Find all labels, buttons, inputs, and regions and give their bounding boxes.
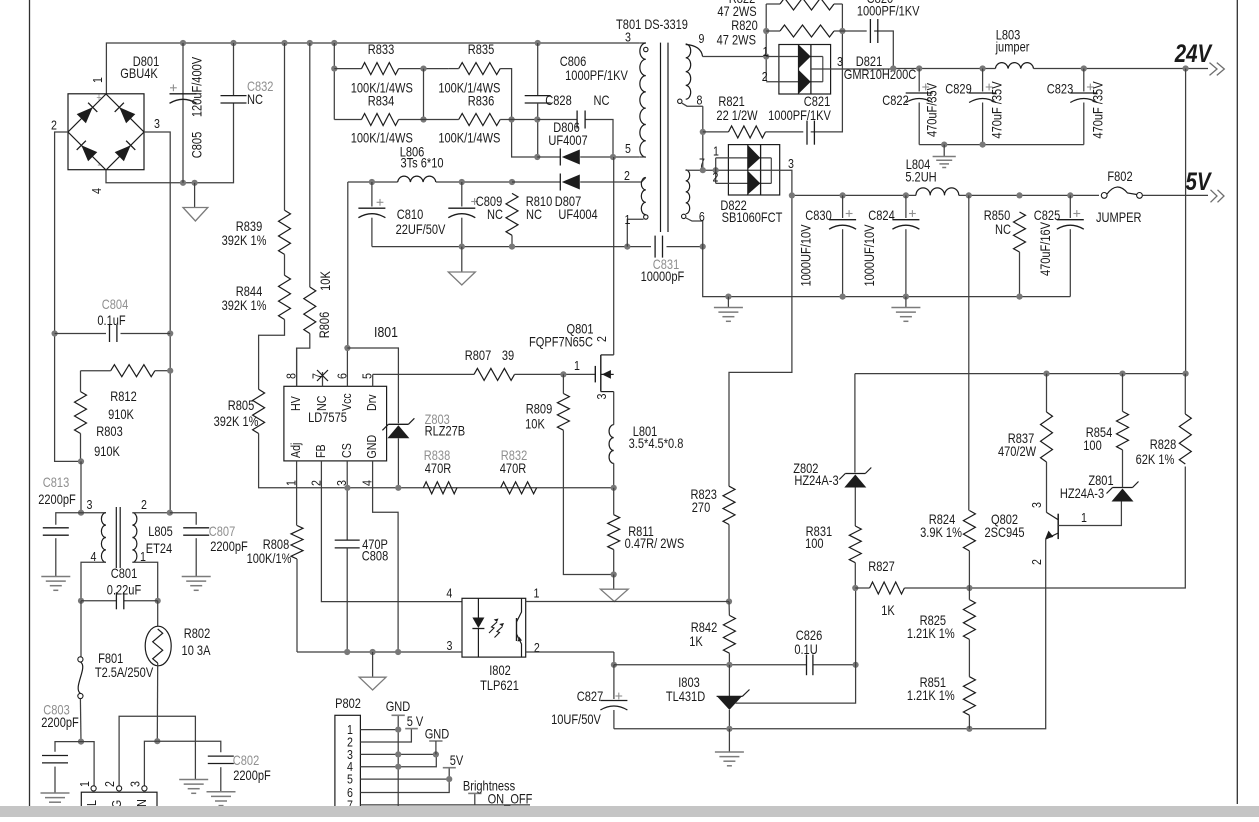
svg-text:470uF /35V: 470uF /35V — [1091, 81, 1106, 139]
svg-text:0.1U: 0.1U — [794, 642, 817, 657]
svg-text:R834: R834 — [368, 93, 395, 108]
svg-text:47 2WS: 47 2WS — [717, 32, 756, 47]
svg-text:470uF/35V: 470uF/35V — [924, 82, 939, 137]
svg-text:62K 1%: 62K 1% — [1136, 452, 1175, 467]
svg-text:C801: C801 — [111, 566, 138, 581]
svg-text:ET24: ET24 — [146, 541, 173, 556]
svg-text:10000pF: 10000pF — [641, 269, 685, 284]
svg-text:392K 1%: 392K 1% — [222, 298, 267, 313]
svg-text:SB1060FCT: SB1060FCT — [722, 210, 783, 225]
svg-text:3: 3 — [154, 116, 160, 131]
svg-text:2: 2 — [51, 117, 57, 132]
svg-text:100K/1%: 100K/1% — [247, 551, 292, 566]
svg-text:HZ24A-3: HZ24A-3 — [1060, 486, 1104, 501]
svg-text:C825: C825 — [1034, 208, 1061, 223]
svg-text:1: 1 — [763, 44, 769, 59]
svg-text:UF4007: UF4007 — [548, 133, 587, 148]
svg-text:T2.5A/250V: T2.5A/250V — [95, 665, 154, 680]
svg-text:1K: 1K — [881, 603, 895, 618]
svg-text:8: 8 — [697, 92, 703, 107]
svg-text:3: 3 — [837, 54, 843, 69]
svg-text:1000UF/10V: 1000UF/10V — [798, 224, 813, 287]
svg-text:N: N — [134, 799, 149, 807]
svg-text:FQPF7N65C: FQPF7N65C — [529, 334, 593, 349]
svg-text:1: 1 — [284, 480, 299, 486]
svg-text:2: 2 — [141, 497, 147, 512]
svg-text:I803: I803 — [678, 675, 700, 690]
svg-text:3: 3 — [447, 638, 453, 653]
svg-text:C823: C823 — [1047, 81, 1074, 96]
svg-text:100: 100 — [1083, 438, 1102, 453]
svg-text:I802: I802 — [489, 663, 511, 678]
svg-text:1: 1 — [77, 781, 92, 787]
svg-text:2200pF: 2200pF — [38, 492, 76, 507]
svg-text:120uF/400V: 120uF/400V — [189, 56, 204, 117]
svg-text:3: 3 — [127, 781, 142, 787]
svg-text:R809: R809 — [526, 401, 553, 416]
svg-text:RLZ27B: RLZ27B — [425, 424, 466, 439]
svg-text:ON_OFF: ON_OFF — [488, 791, 533, 806]
svg-text:C804: C804 — [102, 297, 129, 312]
svg-text:10K: 10K — [525, 416, 545, 431]
svg-text:3: 3 — [625, 29, 631, 44]
svg-text:C808: C808 — [362, 548, 389, 563]
svg-text:C824: C824 — [868, 208, 895, 223]
svg-text:392K 1%: 392K 1% — [214, 414, 259, 429]
svg-text:TLP621: TLP621 — [480, 678, 519, 693]
svg-text:R803: R803 — [96, 424, 123, 439]
svg-text:NC: NC — [314, 395, 329, 411]
svg-text:R842: R842 — [691, 620, 718, 635]
svg-text:470uF /35V: 470uF /35V — [989, 81, 1004, 139]
svg-text:1: 1 — [534, 585, 540, 600]
svg-text:C807: C807 — [209, 524, 236, 539]
svg-text:100K/1/4WS: 100K/1/4WS — [438, 130, 500, 145]
svg-text:NC: NC — [995, 222, 1011, 237]
svg-text:F801: F801 — [98, 651, 123, 666]
svg-text:100: 100 — [805, 536, 824, 551]
svg-text:R833: R833 — [368, 42, 395, 57]
svg-text:2: 2 — [308, 480, 323, 486]
svg-text:C826: C826 — [796, 628, 823, 643]
svg-text:C828: C828 — [545, 93, 572, 108]
svg-text:CS: CS — [339, 443, 354, 458]
svg-text:5 V: 5 V — [407, 714, 424, 729]
svg-text:P802: P802 — [335, 696, 361, 711]
svg-text:5V: 5V — [450, 753, 464, 768]
svg-text:2200pF: 2200pF — [41, 715, 79, 730]
svg-text:8: 8 — [284, 373, 299, 379]
svg-text:L: L — [84, 800, 99, 806]
svg-text:R821: R821 — [718, 94, 745, 109]
svg-text:1: 1 — [713, 143, 719, 158]
svg-text:39: 39 — [502, 348, 514, 363]
svg-text:2: 2 — [712, 169, 718, 184]
svg-text:+: + — [96, 92, 101, 104]
svg-text:1: 1 — [574, 358, 580, 373]
svg-text:392K 1%: 392K 1% — [222, 233, 267, 248]
svg-text:R820: R820 — [731, 18, 758, 33]
svg-text:R850: R850 — [984, 208, 1011, 223]
svg-text:R808: R808 — [263, 537, 290, 552]
svg-text:C802: C802 — [233, 753, 260, 768]
svg-text:R812: R812 — [110, 389, 137, 404]
svg-text:7: 7 — [309, 373, 324, 379]
svg-text:R802: R802 — [184, 626, 211, 641]
svg-text:GND: GND — [425, 726, 450, 741]
svg-text:C821: C821 — [804, 94, 831, 109]
svg-text:1: 1 — [1081, 510, 1087, 525]
svg-text:R844: R844 — [236, 284, 263, 299]
svg-text:470R: 470R — [425, 461, 452, 476]
svg-text:470/2W: 470/2W — [998, 444, 1036, 459]
svg-text:R835: R835 — [468, 42, 495, 57]
svg-text:3.9K 1%: 3.9K 1% — [920, 525, 962, 540]
svg-text:910K: 910K — [94, 444, 121, 459]
svg-text:100K/1/4WS: 100K/1/4WS — [351, 130, 413, 145]
svg-text:R807: R807 — [465, 348, 492, 363]
svg-text:24V: 24V — [1174, 39, 1213, 67]
svg-text:2SC945: 2SC945 — [985, 525, 1025, 540]
svg-text:6: 6 — [334, 373, 349, 379]
svg-text:UF4004: UF4004 — [558, 207, 597, 222]
svg-text:TL431D: TL431D — [666, 689, 705, 704]
svg-text:6: 6 — [699, 209, 705, 224]
svg-text:1000UF/10V: 1000UF/10V — [862, 224, 877, 287]
svg-text:270: 270 — [692, 500, 711, 515]
svg-text:22 1/2W: 22 1/2W — [716, 108, 757, 123]
svg-text:NC: NC — [247, 92, 263, 107]
svg-text:C827: C827 — [577, 689, 604, 704]
svg-text:L805: L805 — [148, 524, 173, 539]
svg-text:470uF/16V: 470uF/16V — [1038, 221, 1053, 276]
svg-text:NC: NC — [526, 207, 542, 222]
svg-text:0.22uF: 0.22uF — [107, 582, 142, 597]
svg-text:C829: C829 — [945, 81, 972, 96]
svg-text:C810: C810 — [397, 207, 424, 222]
svg-text:470R: 470R — [500, 461, 527, 476]
svg-text:C805: C805 — [189, 132, 204, 159]
svg-text:910K: 910K — [108, 407, 135, 422]
svg-text:R805: R805 — [228, 398, 255, 413]
svg-text:C830: C830 — [805, 208, 832, 223]
svg-text:9: 9 — [699, 31, 705, 46]
svg-text:3: 3 — [334, 480, 349, 486]
svg-text:JUMPER: JUMPER — [1096, 210, 1142, 225]
svg-text:10 3A: 10 3A — [182, 643, 212, 658]
svg-text:47 2WS: 47 2WS — [717, 4, 756, 19]
svg-text:3Ts 6*10: 3Ts 6*10 — [400, 155, 443, 170]
svg-text:1.21K 1%: 1.21K 1% — [907, 688, 955, 703]
svg-text:3: 3 — [1029, 502, 1044, 508]
svg-text:HV: HV — [288, 396, 303, 411]
svg-text:1: 1 — [90, 77, 105, 83]
svg-text:HZ24A-3: HZ24A-3 — [794, 473, 838, 488]
svg-text:4: 4 — [446, 585, 452, 600]
svg-text:LD7575: LD7575 — [308, 410, 347, 425]
svg-text:R839: R839 — [236, 219, 263, 234]
svg-text:2: 2 — [762, 69, 768, 84]
svg-text:22UF/50V: 22UF/50V — [396, 222, 446, 237]
svg-text:jumper: jumper — [995, 39, 1030, 54]
svg-text:GND: GND — [386, 699, 411, 714]
svg-text:3.5*4.5*0.8: 3.5*4.5*0.8 — [629, 436, 684, 451]
svg-text:2200pF: 2200pF — [233, 768, 271, 783]
svg-text:10UF/50V: 10UF/50V — [551, 712, 601, 727]
svg-text:R836: R836 — [468, 93, 495, 108]
svg-text:GND: GND — [364, 435, 379, 459]
svg-text:2: 2 — [102, 781, 117, 787]
svg-text:4: 4 — [89, 188, 104, 194]
svg-text:R828: R828 — [1150, 437, 1177, 452]
svg-text:2: 2 — [534, 640, 540, 655]
svg-text:3: 3 — [594, 393, 609, 399]
svg-text:1000PF/1KV: 1000PF/1KV — [565, 68, 628, 83]
svg-text:5.2UH: 5.2UH — [905, 169, 936, 184]
svg-text:Adj: Adj — [288, 443, 303, 458]
svg-text:I801: I801 — [374, 324, 398, 340]
svg-text:Drv: Drv — [364, 394, 379, 411]
svg-text:0.1uF: 0.1uF — [97, 313, 126, 328]
svg-text:1.21K 1%: 1.21K 1% — [907, 626, 955, 641]
svg-text:C822: C822 — [882, 93, 909, 108]
svg-text:1000PF/1KV: 1000PF/1KV — [857, 3, 920, 18]
svg-text:R827: R827 — [868, 559, 895, 574]
svg-text:C806: C806 — [560, 54, 587, 69]
svg-text:0.47R/ 2WS: 0.47R/ 2WS — [625, 536, 685, 551]
svg-text:5: 5 — [625, 141, 631, 156]
svg-text:10K: 10K — [318, 270, 333, 290]
svg-text:FB: FB — [313, 444, 328, 458]
svg-text:1000PF/1KV: 1000PF/1KV — [768, 108, 831, 123]
svg-text:2: 2 — [624, 168, 630, 183]
svg-text:1K: 1K — [689, 634, 703, 649]
svg-text:NC: NC — [487, 207, 503, 222]
svg-text:F802: F802 — [1107, 169, 1132, 184]
svg-text:Vcc: Vcc — [339, 393, 354, 411]
svg-text:-: - — [97, 158, 101, 171]
svg-text:GBU4K: GBU4K — [120, 66, 158, 81]
svg-text:C813: C813 — [43, 475, 70, 490]
svg-text:3: 3 — [87, 497, 93, 512]
svg-text:3: 3 — [788, 156, 794, 171]
svg-text:2: 2 — [594, 336, 609, 342]
svg-text:NC: NC — [594, 93, 610, 108]
svg-text:4: 4 — [360, 480, 375, 486]
svg-text:2200pF: 2200pF — [210, 539, 248, 554]
svg-text:5: 5 — [360, 373, 375, 379]
svg-text:1: 1 — [625, 212, 631, 227]
svg-text:2: 2 — [1029, 559, 1044, 565]
svg-text:5V: 5V — [1185, 167, 1212, 195]
svg-text:R806: R806 — [317, 312, 332, 339]
